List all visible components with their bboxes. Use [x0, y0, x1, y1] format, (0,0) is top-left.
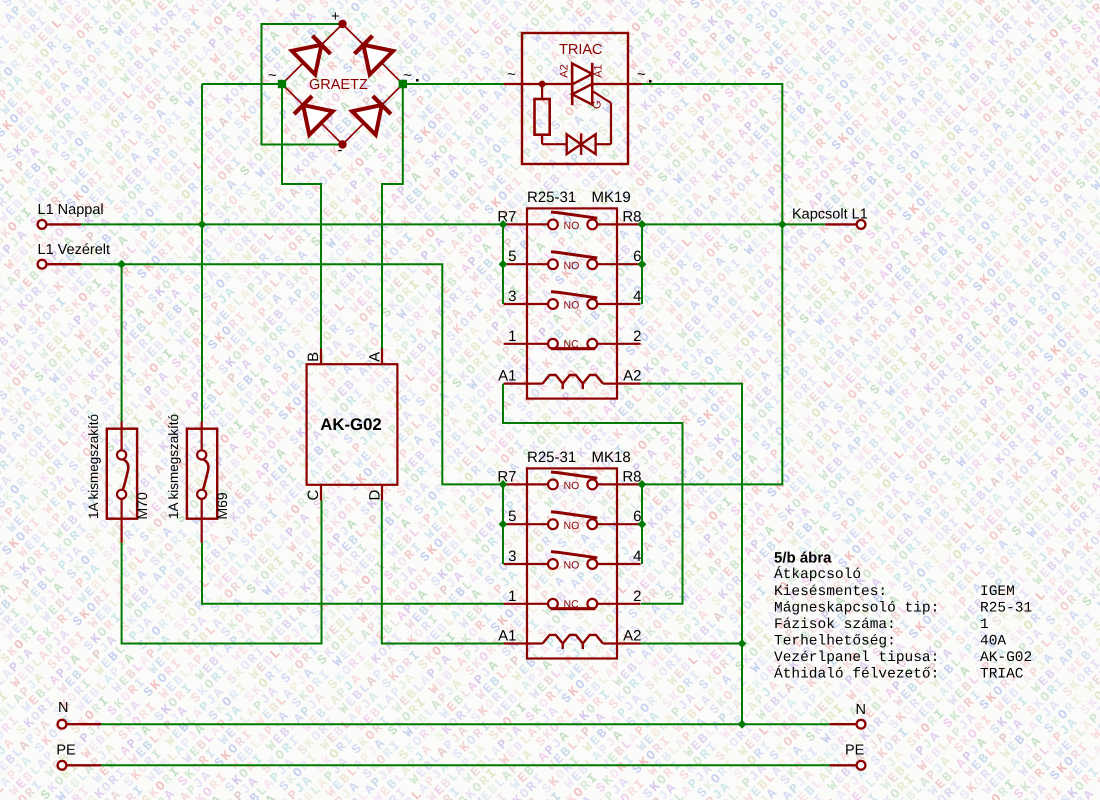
svg-text:5/b ábra: 5/b ábra [774, 549, 832, 566]
svg-text:PE: PE [845, 743, 865, 759]
svg-text:~: ~ [637, 66, 646, 83]
svg-text:A1: A1 [592, 64, 604, 77]
svg-text:NO: NO [564, 560, 580, 572]
svg-text:Kiesésmentes:: Kiesésmentes: [774, 584, 887, 600]
svg-text:AK-G02: AK-G02 [320, 415, 382, 434]
svg-text:M70: M70 [134, 492, 150, 519]
svg-text:B: B [305, 352, 322, 362]
svg-text:IGEM: IGEM [980, 584, 1015, 600]
svg-text:3: 3 [508, 548, 516, 565]
svg-text:4: 4 [633, 548, 641, 565]
svg-text:R25-31: R25-31 [527, 189, 576, 206]
svg-text:~: ~ [507, 66, 516, 83]
svg-text:-: - [338, 142, 343, 159]
svg-text:Mágneskapcsoló tip:: Mágneskapcsoló tip: [774, 600, 939, 616]
svg-text:TRIAC: TRIAC [559, 42, 603, 58]
svg-text:Fázisok száma:: Fázisok száma: [774, 617, 896, 633]
svg-text:5: 5 [508, 508, 516, 525]
svg-text:4: 4 [633, 288, 641, 305]
svg-text:TRIAC: TRIAC [980, 667, 1024, 683]
svg-text:~: ~ [403, 67, 412, 84]
svg-text:Vezérlpanel tipusa:: Vezérlpanel tipusa: [774, 650, 939, 666]
svg-text:A1: A1 [498, 368, 516, 385]
svg-text:A1: A1 [498, 628, 516, 645]
svg-text:NC: NC [564, 339, 580, 351]
svg-text:3: 3 [508, 288, 516, 305]
svg-text:MK18: MK18 [592, 449, 631, 466]
svg-text:1: 1 [508, 588, 516, 605]
svg-text:L1 Vezérelt: L1 Vezérelt [38, 242, 111, 258]
svg-text:40A: 40A [980, 633, 1006, 649]
svg-text:Átkapcsoló: Átkapcsoló [774, 565, 861, 583]
svg-text:NO: NO [564, 220, 580, 232]
svg-text:R8: R8 [622, 208, 641, 225]
svg-text:N: N [856, 702, 866, 718]
svg-text:A2: A2 [623, 628, 641, 645]
svg-text:MK19: MK19 [592, 189, 631, 206]
svg-text:Terhelhetőség:: Terhelhetőség: [774, 633, 896, 649]
svg-text:R25-31: R25-31 [527, 449, 576, 466]
svg-text:2: 2 [633, 328, 641, 345]
svg-text:NO: NO [564, 300, 580, 312]
svg-text:A2: A2 [623, 368, 641, 385]
svg-text:C: C [305, 490, 322, 501]
svg-text:N: N [58, 700, 68, 716]
svg-text:NO: NO [564, 520, 580, 532]
svg-text:1: 1 [508, 328, 516, 345]
svg-text:~: ~ [268, 67, 277, 84]
svg-text:A: A [366, 352, 383, 362]
svg-text:M69: M69 [214, 492, 230, 519]
svg-text:1: 1 [980, 617, 989, 633]
svg-text:NO: NO [564, 260, 580, 272]
svg-text:2: 2 [633, 588, 641, 605]
svg-text:R8: R8 [622, 468, 641, 485]
svg-text:Áthidaló félvezető:: Áthidaló félvezető: [774, 665, 939, 683]
svg-text:+: + [331, 8, 340, 25]
svg-text:Kapcsolt L1: Kapcsolt L1 [792, 207, 868, 223]
svg-text:GRAETZ: GRAETZ [309, 77, 368, 93]
svg-text:R25-31: R25-31 [980, 600, 1032, 616]
svg-text:5: 5 [508, 248, 516, 265]
svg-text:G: G [592, 100, 604, 109]
svg-text:D: D [366, 490, 383, 501]
svg-text:NO: NO [564, 480, 580, 492]
svg-text:PE: PE [56, 743, 76, 759]
svg-text:1A kismegszakító: 1A kismegszakító [86, 414, 101, 519]
svg-text:1A kismegszakító: 1A kismegszakító [166, 414, 181, 519]
svg-text:L1 Nappal: L1 Nappal [38, 202, 104, 218]
svg-text:AK-G02: AK-G02 [980, 650, 1032, 666]
svg-text:A2: A2 [559, 64, 571, 77]
svg-text:NC: NC [564, 599, 580, 611]
